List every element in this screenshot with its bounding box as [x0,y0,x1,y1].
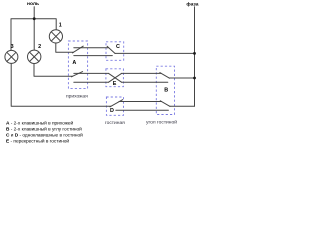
svg-text:A - 2-х клавишный в прихожей: A - 2-х клавишный в прихожей [6,120,74,127]
svg-text:прихожая: прихожая [66,94,88,99]
svg-text:D: D [110,108,114,114]
svg-text:фаза: фаза [186,1,198,8]
svg-text:C: C [116,44,120,50]
svg-text:A: A [72,60,76,66]
svg-text:гостиная: гостиная [105,121,125,126]
svg-text:C и D - одноклавишные в гостин: C и D - одноклавишные в гостиной [6,131,83,138]
svg-text:E: E [113,81,117,87]
svg-text:1: 1 [59,23,62,29]
svg-text:B: B [164,87,168,93]
svg-text:B - 2-х клавишный в углу гости: B - 2-х клавишный в углу гостиной [6,126,82,133]
svg-text:ноль: ноль [27,2,39,7]
svg-text:угол гостиной: угол гостиной [146,119,177,126]
svg-text:2: 2 [38,44,41,50]
svg-text:3: 3 [11,44,14,50]
svg-text:E - перекрестный в гостиной: E - перекрестный в гостиной [6,137,69,144]
